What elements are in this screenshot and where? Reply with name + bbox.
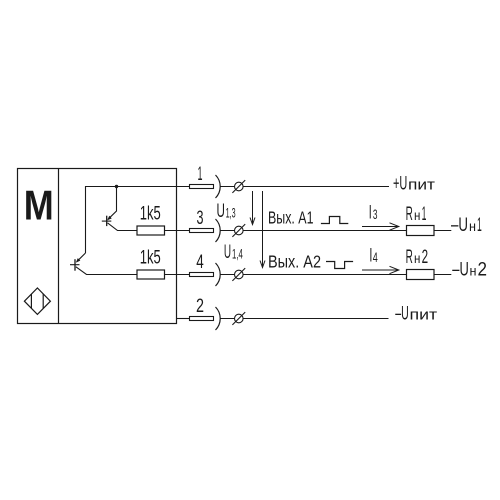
svg-text:2: 2 [196, 295, 204, 317]
svg-text:R: R [406, 204, 413, 225]
resistor R1 1k5 box [137, 226, 165, 235]
svg-text:1k5: 1k5 [140, 247, 161, 268]
transistor Q2 base bar [74, 259, 76, 271]
svg-text:R: R [406, 247, 413, 268]
svg-text:Вых. А1: Вых. А1 [268, 208, 314, 228]
transistor Q1 base stub [102, 220, 112, 222]
pin 2 terminal [190, 317, 214, 321]
svg-text:пит: пит [408, 176, 435, 193]
wire -Upit row [220, 318, 388, 320]
connector arcs [216, 175, 221, 330]
svg-text:1,4: 1,4 [232, 247, 243, 262]
sensor body outline [18, 169, 177, 324]
detachable contact circles [232, 180, 245, 325]
svg-text:4: 4 [373, 250, 378, 265]
transistor Q2 collector [76, 267, 137, 275]
svg-text:2: 2 [478, 258, 488, 280]
svg-text:–U: –U [395, 303, 409, 324]
connector arc pin 4 [216, 263, 221, 286]
svg-text:2: 2 [422, 247, 429, 268]
svg-text:н: н [414, 251, 420, 266]
svg-text:M: M [24, 181, 54, 228]
wire output A1 row [220, 230, 451, 232]
connector arc pin 3 [216, 219, 221, 242]
pulse symbol A2 (negative pulse) [326, 262, 353, 269]
pin 4 terminal [190, 273, 214, 277]
svg-text:1: 1 [198, 163, 203, 185]
load resistor Rn2 box [407, 270, 435, 280]
contact circle pin 4 [235, 270, 244, 279]
svg-text:1,3: 1,3 [226, 205, 236, 220]
svg-text:н: н [470, 262, 477, 278]
svg-text:4: 4 [196, 251, 204, 273]
pin 1 terminal [190, 185, 214, 189]
connector arc pin 1 [216, 175, 221, 198]
transistor Q1 base bar [106, 216, 108, 226]
svg-text:3: 3 [373, 207, 378, 222]
pin 3 terminal [190, 229, 214, 233]
wire resistor R1 to pin 3 [165, 230, 190, 232]
sensor body divider [58, 169, 60, 324]
voltage arrow U1,3 [250, 191, 255, 225]
load resistor Rn1 box [407, 226, 435, 236]
resistor R2 1k5 box [137, 270, 165, 279]
wire resistor R2 to pin 4 [165, 274, 190, 276]
svg-text:I: I [369, 203, 372, 224]
transistor Q2 base stub [70, 264, 80, 266]
pulse symbol A1 (positive pulse) [321, 217, 348, 224]
svg-text:U: U [224, 242, 231, 263]
svg-text:–U: –U [451, 214, 468, 236]
svg-text:U: U [217, 201, 225, 222]
svg-text:+U: +U [393, 173, 407, 194]
junction dot node [115, 185, 118, 188]
svg-text:н: н [469, 218, 476, 234]
transistor Q1 emitter arrow [107, 216, 111, 220]
current arrow I3 [362, 223, 399, 230]
svg-text:3: 3 [197, 207, 204, 229]
wire pin 2 [177, 318, 190, 320]
connector arc pin 2 [216, 307, 221, 330]
contact circle pin 3 [235, 226, 244, 235]
wire: +U rail / pin1 row inside block [86, 187, 190, 254]
voltage arrow U1,4 [260, 191, 265, 268]
svg-text:1k5: 1k5 [140, 204, 161, 225]
internal circuit [70, 187, 190, 319]
transistor Q2 emitter diagonal [77, 253, 86, 262]
svg-text:1: 1 [477, 214, 482, 236]
transistor Q1 emitter vertical [108, 187, 117, 220]
svg-text:н: н [414, 208, 420, 223]
wire +Upit row [220, 186, 389, 188]
contact circle pin 1 [235, 182, 244, 191]
non-contact sensor diamond symbol [24, 288, 50, 314]
svg-text:Вых. А2: Вых. А2 [268, 252, 321, 272]
transistor Q1 collector [108, 223, 137, 231]
svg-text:–U: –U [452, 258, 469, 280]
svg-text:1: 1 [422, 204, 427, 225]
wire output A2 row [220, 274, 451, 276]
external wires [220, 187, 451, 319]
contact circle pin 2 [235, 314, 244, 323]
current arrow I4 [362, 266, 399, 273]
transistor Q2 emitter arrow [76, 258, 80, 262]
svg-text:пит: пит [410, 306, 438, 323]
